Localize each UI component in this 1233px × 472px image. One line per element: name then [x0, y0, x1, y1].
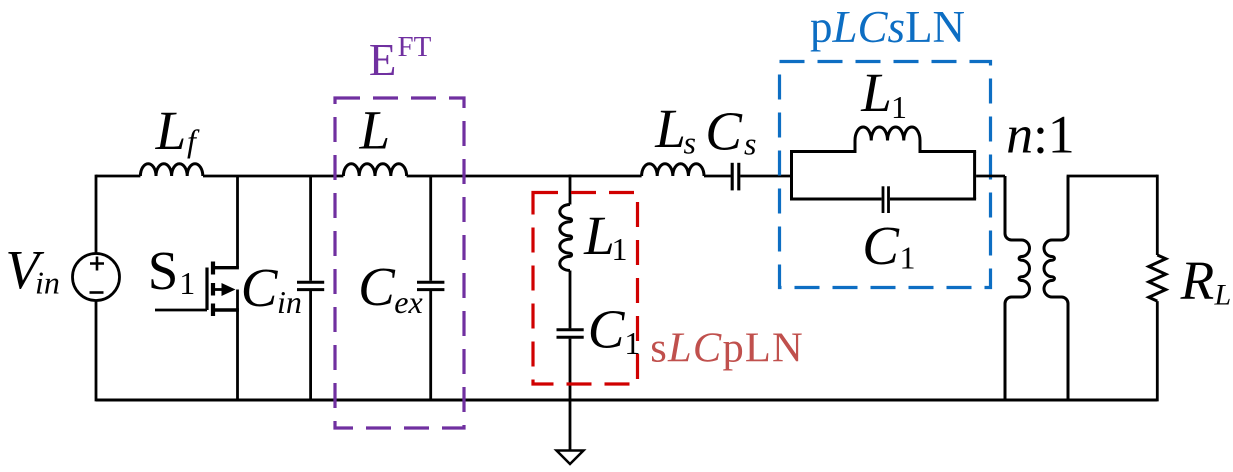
svg-text:C: C — [588, 299, 626, 360]
svg-text:in: in — [35, 265, 60, 301]
inductor L1 shunt branch top wire — [569, 175, 572, 205]
svg-text:s: s — [744, 126, 756, 162]
capacitor Cin bottom wire — [309, 291, 312, 400]
capacitor C1 shunt plates — [557, 330, 584, 337]
LC tank bottom edge with capacitor C1 — [790, 198, 976, 201]
wire L1 to C1 — [569, 271, 572, 329]
svg-text:L: L — [583, 205, 615, 266]
svg-text:L: L — [155, 100, 187, 161]
label EFT — [369, 31, 432, 85]
source minus sign — [90, 291, 104, 294]
svg-text:s: s — [684, 125, 696, 161]
wire left rail lower — [95, 301, 98, 402]
svg-text:R: R — [1180, 250, 1215, 311]
svg-text:1: 1 — [612, 231, 628, 267]
wire RL top — [1156, 175, 1159, 255]
capacitor C1 tank plates — [883, 186, 889, 213]
capacitor Cin branch top wire — [309, 176, 312, 281]
wire tank to transformer — [976, 175, 1005, 178]
transistor S1 gate bar — [205, 268, 208, 311]
label Cin — [241, 257, 302, 320]
svg-text:n: n — [1006, 104, 1033, 164]
svg-text:pLCsLN: pLCsLN — [810, 2, 965, 52]
svg-text:L: L — [654, 98, 686, 159]
source Vin circle — [73, 254, 120, 301]
wire bottom rail — [96, 399, 1157, 402]
wire secondary top to RL — [1067, 175, 1158, 178]
label Ls — [654, 98, 696, 161]
wire top rail left segment — [96, 175, 140, 178]
inductor L1 shunt coil — [560, 205, 572, 271]
transformer primary — [1005, 176, 1030, 400]
svg-text:L: L — [1214, 279, 1232, 312]
transistor S1 source wire — [236, 290, 239, 401]
box EFT purple dashed — [335, 98, 464, 428]
capacitor Cs — [732, 163, 739, 191]
transistor S1 source stub — [213, 308, 239, 311]
label n:1 — [1006, 104, 1075, 164]
LC tank rectangle right edge — [973, 152, 976, 200]
LC tank rectangle left edge — [790, 152, 793, 200]
svg-text:C: C — [358, 256, 396, 317]
wire top rail segment to Ls — [407, 175, 642, 178]
svg-text:E: E — [369, 35, 397, 85]
inductor Lf — [140, 164, 202, 176]
label L1 shunt — [583, 205, 627, 267]
transistor S1 drain stub — [213, 266, 239, 269]
svg-text:FT: FT — [398, 31, 432, 63]
label L1 tank — [860, 62, 907, 125]
svg-text:1: 1 — [1048, 104, 1075, 164]
node Vin top: left rail upper — [95, 175, 98, 254]
ground — [557, 451, 584, 465]
inductor Ls — [642, 164, 704, 176]
svg-text::: : — [1033, 104, 1048, 164]
label C1 shunt — [588, 299, 641, 361]
label RL — [1180, 250, 1232, 312]
svg-text:S: S — [148, 240, 179, 301]
label Cex — [358, 256, 423, 320]
label C1 tank — [862, 215, 915, 276]
wire Cs to LC tank — [740, 175, 791, 178]
svg-text:C: C — [862, 215, 900, 276]
capacitor Cex plates — [417, 282, 444, 289]
label Cs — [705, 101, 756, 162]
transistor S1 gate lead — [155, 309, 207, 312]
transistor S1 body arrow — [213, 283, 236, 296]
box pLCsLN blue dashed — [780, 62, 991, 288]
svg-text:in: in — [277, 284, 302, 320]
svg-text:sLCpLN: sLCpLN — [650, 325, 804, 372]
label Lf — [155, 100, 200, 161]
label Vin — [5, 239, 59, 300]
resistor RL — [1149, 255, 1166, 301]
svg-text:C: C — [705, 101, 743, 162]
svg-text:1: 1 — [900, 239, 916, 275]
svg-text:L: L — [359, 99, 391, 160]
box sLCpLN red dashed — [533, 193, 638, 385]
source plus sign — [90, 257, 104, 271]
svg-text:L: L — [860, 62, 892, 123]
transistor Q S1 drain wire — [236, 176, 239, 268]
wire top rail middle segment — [203, 175, 343, 178]
wire Ls to Cs — [704, 175, 731, 178]
transformer secondary — [1044, 176, 1068, 400]
capacitor Cex branch top wire — [429, 176, 432, 281]
wire C1 to ground — [569, 339, 572, 451]
capacitor Cin plates — [297, 282, 324, 289]
inductor L — [343, 164, 406, 176]
svg-text:C: C — [241, 257, 279, 318]
svg-text:ex: ex — [394, 284, 422, 320]
LC tank top edge with inductor L1 — [790, 127, 976, 152]
label S1 — [148, 240, 196, 301]
wire RL bottom — [1156, 301, 1159, 401]
transistor S1 channel segments — [211, 262, 215, 317]
svg-text:1: 1 — [179, 265, 195, 301]
capacitor Cex bottom wire — [429, 291, 432, 400]
svg-text:1: 1 — [891, 89, 907, 125]
